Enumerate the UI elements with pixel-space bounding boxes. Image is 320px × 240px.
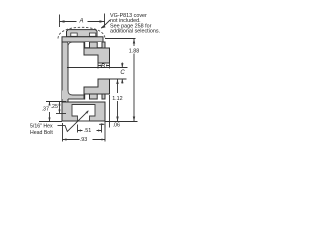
base top edge <box>62 101 105 103</box>
web fillet top <box>68 42 73 47</box>
bolt leader <box>58 111 89 132</box>
svg-text:B: B <box>101 64 105 70</box>
left extension line upper <box>46 101 66 103</box>
svg-text:.25: .25 <box>51 104 59 110</box>
svg-text:1.88: 1.88 <box>129 49 140 55</box>
upper boss groove line <box>85 47 110 49</box>
note text block <box>110 13 160 35</box>
svg-text:C: C <box>120 70 125 76</box>
.06 extension verticals <box>105 95 110 128</box>
svg-text:.06: .06 <box>113 123 121 129</box>
.25 top arrow <box>58 102 60 106</box>
upper boss <box>84 42 110 63</box>
C upper extension line (long) <box>67 67 128 69</box>
svg-text:.93: .93 <box>80 137 88 143</box>
svg-text:additional selections.: additional selections. <box>110 29 160 35</box>
.51 left arrow <box>78 130 82 132</box>
arrowheads <box>48 20 135 140</box>
base T-slot cavity <box>72 105 95 122</box>
white gap above base <box>69 100 108 102</box>
1.12 bottom arrow <box>116 117 118 122</box>
note leader arrowhead <box>101 25 106 28</box>
lower boss notch right <box>97 94 102 100</box>
svg-text:5/16" Hex: 5/16" Hex <box>30 124 53 130</box>
web arm to lower boss <box>62 91 84 100</box>
.06 arrow shaft <box>99 123 104 125</box>
1.88 dimension line <box>133 39 135 122</box>
.51 right arrow <box>98 130 102 132</box>
head shoulder bar <box>62 37 103 42</box>
head undercut pocket right <box>89 33 95 36</box>
.51 dim ticks <box>78 125 102 133</box>
note leader <box>101 20 110 28</box>
svg-text:Head Bolt: Head Bolt <box>30 130 53 136</box>
.51 dim line <box>78 130 102 132</box>
.93 dim line <box>63 139 106 141</box>
svg-text:.51: .51 <box>84 128 92 134</box>
head undercut pocket left <box>71 33 77 36</box>
.25 bottom arrow <box>58 110 60 114</box>
.06 arrow <box>101 123 105 125</box>
bottom extension line right <box>105 121 138 123</box>
left web <box>62 42 68 102</box>
left extension line mid <box>56 113 66 115</box>
svg-text:1.12: 1.12 <box>112 96 123 102</box>
dimension lines style <box>39 14 138 142</box>
1.12 top arrow <box>116 79 118 84</box>
dim A line <box>60 21 105 23</box>
channel fillet outlines <box>68 42 84 99</box>
left extension line bottom <box>39 121 62 123</box>
B right arrow <box>106 65 110 67</box>
1.88 top arrow <box>133 39 135 44</box>
.25 dim line <box>59 102 61 114</box>
upper boss notch left <box>85 42 90 48</box>
C bottom arrow (points up to y77) <box>121 79 123 83</box>
1.12 dimension line <box>117 79 119 122</box>
.37 top arrow <box>48 102 50 106</box>
1.88 bottom arrow <box>133 117 135 122</box>
dim A extension ticks <box>59 15 61 28</box>
svg-text:A: A <box>79 19 84 25</box>
.93 right arrow <box>102 139 106 141</box>
.93 dim ticks <box>63 123 106 142</box>
svg-text:.37: .37 <box>42 107 50 113</box>
bolt note text <box>30 124 53 137</box>
bolt leader arrowhead <box>86 110 89 113</box>
B dim line <box>98 65 110 67</box>
C arrows stems <box>121 63 123 84</box>
1.88 top extension line <box>105 38 136 40</box>
B left arrow <box>98 65 102 67</box>
dim text A <box>79 19 126 77</box>
lower boss notch left <box>85 94 90 100</box>
C lower extension line <box>110 78 127 80</box>
.93 left arrow <box>63 138 67 140</box>
C top arrow (points down to y66) <box>121 63 123 67</box>
head top flange with end hooks <box>67 30 98 37</box>
upper boss notch right <box>97 42 102 48</box>
dim A left arrow <box>60 20 65 23</box>
dashed cover arc <box>58 27 105 38</box>
dim A right arrow <box>100 20 105 23</box>
.37 bottom arrow <box>48 118 50 122</box>
rail profile gray body <box>62 30 110 121</box>
lower boss groove line <box>85 93 110 95</box>
lower boss <box>84 79 110 99</box>
B dim ticks <box>98 63 110 69</box>
base block <box>62 102 105 121</box>
.37 dim line <box>49 102 51 122</box>
